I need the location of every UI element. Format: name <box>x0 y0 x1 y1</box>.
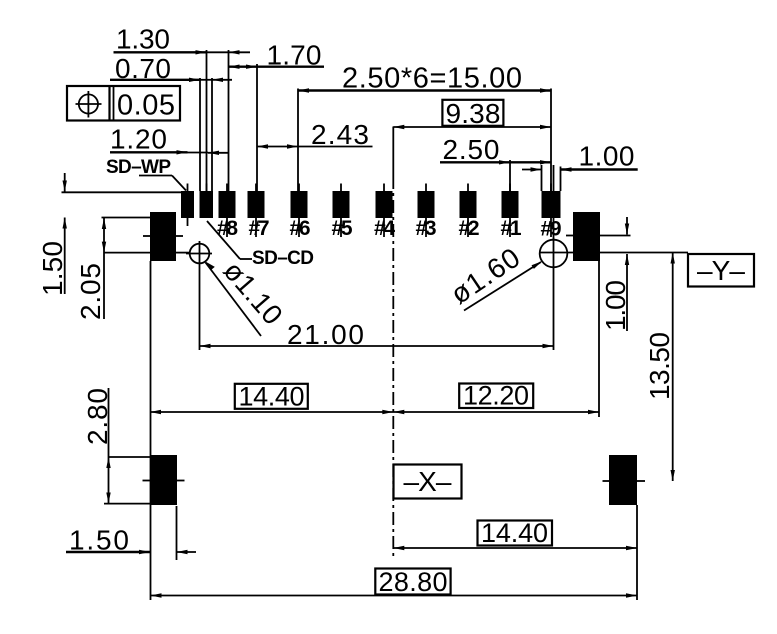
dim 14.40 / 12.20 shared line <box>150 410 599 414</box>
extension line pad B center <box>206 50 208 191</box>
svg-text:#9: #9 <box>541 218 562 241</box>
svg-text:#7: #7 <box>249 217 270 240</box>
svg-text:2.50*6=15.00: 2.50*6=15.00 <box>342 63 522 95</box>
svg-text:2.50: 2.50 <box>443 134 500 165</box>
top body outline line left <box>62 191 182 193</box>
svg-text:14.40: 14.40 <box>481 518 548 548</box>
basic dim box 12.20 <box>459 381 533 411</box>
basic dim box 14.40 bottom <box>478 518 553 548</box>
basic dim box 9.38 <box>442 98 503 129</box>
datum box -Y- <box>688 254 754 287</box>
svg-text:–Y–: –Y– <box>697 255 745 286</box>
dim 1.00 line with underline <box>561 167 638 171</box>
dim 28.80 line <box>151 593 638 597</box>
pad #8 <box>219 184 236 238</box>
svg-text:2.05: 2.05 <box>75 263 106 320</box>
svg-text:1.50: 1.50 <box>37 241 68 296</box>
datum box -X- <box>394 465 462 499</box>
svg-text:–X–: –X– <box>404 466 452 497</box>
pad SD-WP switch pad <box>181 184 194 227</box>
svg-text:SD–CD: SD–CD <box>252 248 314 269</box>
extension line pad 1 center <box>509 160 511 191</box>
leader dia 1.60 <box>464 261 542 310</box>
reference line 2.80 top <box>109 456 151 458</box>
feature control frame (position tolerance 0.05) <box>67 86 180 122</box>
svg-text:13.50: 13.50 <box>644 332 675 400</box>
pad #3 <box>418 184 435 238</box>
dim 2.05 vertical <box>102 218 106 319</box>
svg-text:1.20: 1.20 <box>110 124 167 155</box>
dim 1.00 right vertical <box>625 217 629 331</box>
svg-text:12.20: 12.20 <box>463 381 529 411</box>
extension line bottom-right pad down <box>636 505 638 600</box>
leader SD-CD <box>207 221 252 259</box>
pad #1 <box>502 184 519 238</box>
reference line y218 left <box>102 217 151 219</box>
svg-text:9.38: 9.38 <box>446 98 501 129</box>
leader SD-WP <box>139 176 186 191</box>
svg-text:#4: #4 <box>374 217 395 240</box>
datum line Y (horizontal through right hole to -Y- box) <box>540 252 689 254</box>
pad SD-CD switch pad <box>200 184 214 219</box>
dim 9.38 line <box>393 125 551 129</box>
svg-text:#5: #5 <box>332 217 353 240</box>
svg-text:#8: #8 <box>217 217 238 240</box>
reference line hole level left <box>104 252 191 254</box>
svg-text:#3: #3 <box>416 217 437 240</box>
pad #2 <box>460 184 477 238</box>
svg-text:14.40: 14.40 <box>239 382 305 412</box>
extension line bottom-left pad right edge <box>176 506 178 560</box>
svg-text:0.05: 0.05 <box>117 90 175 122</box>
mounting pad bottom-right <box>603 455 646 505</box>
extension line left pads column down <box>150 261 152 600</box>
svg-text:1.50: 1.50 <box>69 525 129 556</box>
svg-text:#6: #6 <box>290 217 311 240</box>
leader dia 1.10 <box>204 261 261 336</box>
dim 1.00 left arrow segment <box>522 167 542 171</box>
extension line pad B right edge <box>211 78 213 191</box>
extension line pad 8 center <box>228 50 230 191</box>
hole marker left (crosshair circle, dia 1.10) <box>186 241 212 266</box>
extension line pad 9 center <box>550 89 552 192</box>
svg-text:#1: #1 <box>501 217 522 240</box>
pad #9 <box>542 184 561 238</box>
svg-text:1.70: 1.70 <box>267 40 322 71</box>
pad #6 <box>291 184 308 238</box>
extension line pad B left edge <box>199 78 201 191</box>
extension line pad 6 center <box>297 89 299 192</box>
extension line pad 9 left edge <box>541 165 543 191</box>
svg-text:1.00: 1.00 <box>600 280 631 331</box>
mounting pad top-left <box>143 212 183 261</box>
svg-text:2.80: 2.80 <box>82 388 113 445</box>
extension line pad 9 right edge <box>560 167 562 192</box>
svg-text:21.00: 21.00 <box>287 319 364 350</box>
mounting pad top-right <box>566 212 631 261</box>
svg-text:1.30: 1.30 <box>116 24 170 55</box>
svg-text:#2: #2 <box>459 217 480 240</box>
dim 1.70 line with underline <box>229 65 325 69</box>
svg-text:28.80: 28.80 <box>379 567 448 597</box>
extension line right hole down to 21.00 <box>553 269 555 350</box>
pad #7 <box>248 184 265 238</box>
dim 1.20 line with underline <box>110 150 229 155</box>
svg-text:1.00: 1.00 <box>579 141 635 172</box>
dim 1.50 bottom line with underline <box>66 550 196 554</box>
hole marker right (crosshair circle, dia 1.60) <box>540 238 568 269</box>
dim 14.40 bottom line <box>393 546 637 550</box>
basic dim box 28.80 <box>375 567 450 597</box>
dim 21.00 line <box>200 344 554 348</box>
svg-text:SD–WP: SD–WP <box>106 157 171 178</box>
dim 2.50 line with underline <box>440 160 551 164</box>
reference line 2.80 bottom <box>104 503 150 505</box>
dim 13.50 vertical <box>671 253 675 482</box>
svg-text:0.70: 0.70 <box>115 53 171 84</box>
mounting pad bottom-left <box>143 455 185 505</box>
dim 2.50*6=15.00 line <box>298 88 551 92</box>
extension line left hole down to 21.00 <box>199 266 201 350</box>
pad #5 <box>333 184 350 238</box>
extension line right hole center vertical <box>553 165 555 240</box>
dim 2.80 vertical <box>106 388 110 504</box>
centerline X axis (dash-dot vertical) <box>392 127 394 558</box>
svg-text:2.43: 2.43 <box>311 119 369 150</box>
pad #4 <box>376 184 393 238</box>
basic dim box 14.40 left <box>235 382 308 412</box>
dim 2.43 line with underline <box>257 144 373 148</box>
dim 1.50 left vertical <box>63 173 67 294</box>
dim 0.70 line with underline <box>110 78 232 82</box>
extension line pad 7 center <box>256 64 258 191</box>
extension line right pad down to 12.20 <box>598 261 600 417</box>
dim 1.30 line with underline <box>114 50 251 54</box>
